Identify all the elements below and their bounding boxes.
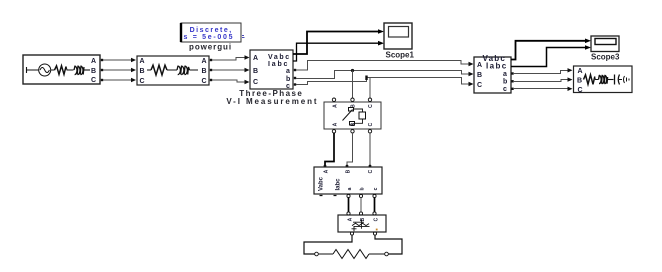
svg-text:B: B bbox=[477, 72, 482, 79]
wire meas2 Iabc to Scope3 input2 bbox=[511, 48, 586, 67]
fault port b bottom bbox=[351, 130, 354, 133]
fault port c bottom bbox=[368, 130, 371, 133]
wire source B to RL branch bbox=[101, 68, 136, 72]
fault port B top bbox=[351, 98, 354, 101]
resistor zigzag bbox=[333, 250, 369, 259]
svg-text:Iabc: Iabc bbox=[268, 61, 289, 68]
wire meas3 b to small block bbox=[360, 198, 362, 213]
svg-text:C: C bbox=[374, 217, 380, 221]
svg-text:C: C bbox=[578, 87, 583, 94]
svg-text:Scope1: Scope1 bbox=[386, 51, 415, 60]
wire c long run to right VI block C bbox=[294, 76, 474, 87]
wire meas2 Vabc to Scope3 input1 bbox=[511, 41, 586, 60]
svg-text:B: B bbox=[91, 68, 96, 75]
svg-text:s = 5e-005: s = 5e-005 bbox=[184, 34, 235, 41]
wire fault c down to meas3 C bbox=[369, 133, 371, 165]
svg-text:A: A bbox=[91, 58, 96, 65]
inductor coil bbox=[177, 66, 190, 75]
svg-text:C: C bbox=[91, 77, 96, 84]
svg-text:B: B bbox=[360, 217, 366, 221]
svg-text:C: C bbox=[368, 122, 374, 126]
svg-text:b: b bbox=[286, 76, 290, 83]
wire meas3 c to small block bbox=[374, 198, 376, 213]
resistor zigzag bbox=[584, 75, 595, 85]
svg-text:A: A bbox=[324, 169, 330, 173]
rotated V-I measurement block (meas3) bbox=[314, 167, 382, 198]
wire meas2 a to load A bbox=[511, 68, 572, 75]
svg-text:B: B bbox=[346, 169, 352, 173]
three-phase fault block bbox=[324, 98, 381, 133]
three-phase series RLC load block bbox=[574, 66, 633, 94]
small block bottom ports bbox=[350, 232, 353, 235]
wire b long run to right VI block B bbox=[294, 69, 474, 79]
svg-text:A: A bbox=[202, 58, 207, 65]
wire meas2 b to load B bbox=[511, 77, 572, 82]
three-phase source block bbox=[23, 55, 100, 84]
switch symbol bbox=[343, 110, 353, 121]
wire RL B to VI meas bbox=[210, 68, 250, 72]
wire bbox=[167, 69, 177, 71]
meas3 bottom ports bbox=[347, 194, 350, 197]
svg-text:B: B bbox=[140, 68, 145, 75]
svg-text:B: B bbox=[253, 68, 258, 75]
wire bbox=[595, 77, 599, 80]
svg-text:Vabc: Vabc bbox=[268, 54, 291, 61]
resistor R zigzag bbox=[55, 66, 67, 75]
small transformer block bbox=[338, 212, 386, 235]
wire c tap down to fault C bbox=[369, 78, 371, 99]
wire Vabc to Scope1 input1 bbox=[293, 32, 379, 55]
svg-text:A: A bbox=[578, 68, 583, 75]
wire a long run to right VI block A bbox=[294, 61, 474, 72]
wire small block left to ground resistor bbox=[304, 235, 352, 254]
ground resistor element bbox=[315, 250, 389, 259]
three-phase V-I measurement block 1 bbox=[250, 50, 293, 90]
svg-text:Iabc: Iabc bbox=[336, 178, 342, 191]
svg-text:a: a bbox=[286, 68, 290, 75]
svg-text:Scope3: Scope3 bbox=[591, 53, 620, 62]
internal winding symbol bbox=[352, 220, 370, 232]
svg-text:b: b bbox=[503, 79, 507, 86]
wire bbox=[66, 67, 74, 71]
svg-text:C: C bbox=[368, 169, 374, 173]
wire bbox=[84, 69, 90, 71]
svg-text:C: C bbox=[477, 82, 482, 89]
wire bbox=[190, 69, 199, 71]
svg-text:c: c bbox=[503, 86, 507, 93]
scope1 block bbox=[384, 23, 412, 49]
three-phase series RL branch block bbox=[137, 56, 209, 85]
junction node b tap bbox=[351, 69, 354, 72]
svg-text:A: A bbox=[253, 55, 258, 62]
wire fault b down to meas3 B bbox=[347, 133, 353, 165]
svg-text:C: C bbox=[140, 78, 145, 85]
svg-text:A: A bbox=[333, 122, 339, 126]
inductor coil bbox=[599, 75, 608, 84]
wire meas2 c to load C bbox=[511, 87, 572, 91]
junction node c tap bbox=[365, 76, 367, 81]
Vabc Iabc unconnected stubs bbox=[320, 195, 337, 197]
fault resistor bbox=[354, 109, 363, 112]
ghost text fragment bbox=[242, 36, 245, 38]
wire bbox=[608, 79, 614, 81]
wire Iabc to Scope1 input2 bbox=[293, 43, 379, 61]
svg-text:A: A bbox=[348, 217, 354, 221]
fault port A top bbox=[332, 98, 335, 101]
ground terminal bbox=[27, 67, 39, 73]
wire meas3 a to small block bbox=[348, 198, 350, 213]
svg-text:V-I Measurement: V-I Measurement bbox=[226, 97, 318, 106]
svg-text:A: A bbox=[140, 58, 145, 65]
fault port C top bbox=[368, 98, 371, 101]
svg-text:a: a bbox=[347, 187, 353, 190]
wire RL C to VI meas bbox=[210, 79, 250, 84]
svg-text:C: C bbox=[368, 104, 374, 108]
wire bbox=[147, 69, 151, 71]
svg-text:c: c bbox=[373, 187, 379, 190]
fault port a bottom bbox=[332, 130, 335, 133]
resistor zigzag bbox=[151, 65, 167, 75]
wire RL A to VI meas bbox=[210, 55, 250, 61]
capacitor plates bbox=[614, 75, 616, 85]
svg-text:B: B bbox=[577, 78, 582, 85]
svg-text:b: b bbox=[360, 187, 366, 190]
wire ground resistor to small block right bbox=[375, 235, 402, 254]
wire source C to RL branch bbox=[101, 78, 136, 82]
svg-text:C: C bbox=[202, 78, 207, 85]
wire source A to RL branch bbox=[101, 58, 136, 62]
svg-text:a: a bbox=[503, 71, 507, 78]
scope3 block bbox=[591, 36, 619, 52]
svg-text:A: A bbox=[333, 104, 339, 108]
svg-text:B: B bbox=[202, 68, 207, 75]
powergui block bbox=[181, 23, 241, 42]
wire b tap down to fault B bbox=[352, 71, 354, 99]
svg-text:Iabc: Iabc bbox=[486, 62, 508, 71]
wire bbox=[51, 69, 55, 71]
svg-text:C: C bbox=[253, 79, 258, 86]
wire fault a down to meas3 A bbox=[325, 133, 334, 165]
svg-text:A: A bbox=[477, 62, 482, 69]
svg-text:powergui: powergui bbox=[189, 43, 232, 52]
right V-I measurement block (meas2) bbox=[474, 54, 511, 93]
AC source circle bbox=[39, 64, 51, 76]
svg-text:Vabc: Vabc bbox=[319, 176, 325, 191]
inductor L coil bbox=[74, 66, 84, 75]
